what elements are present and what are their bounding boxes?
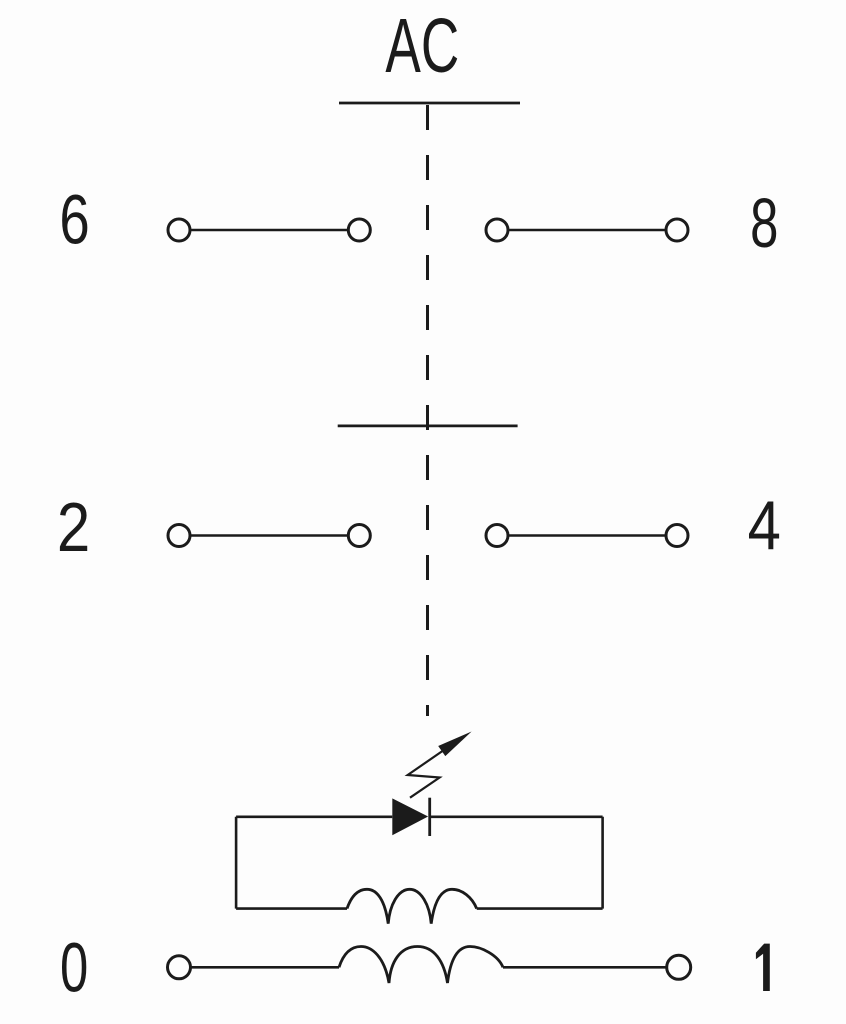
- svg-text:0: 0: [60, 929, 88, 1007]
- svg-text:2: 2: [57, 488, 90, 566]
- svg-text:AC: AC: [385, 4, 459, 90]
- svg-text:4: 4: [748, 486, 781, 565]
- svg-text:6: 6: [59, 181, 89, 259]
- svg-text:8: 8: [750, 184, 778, 262]
